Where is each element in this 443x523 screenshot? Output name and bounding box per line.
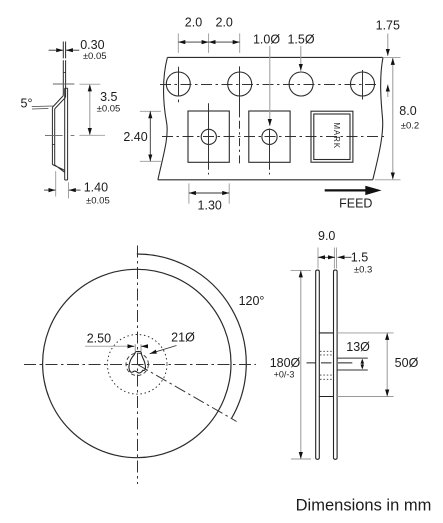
svg-text:0.30: 0.30: [80, 38, 104, 52]
FEED arrow: [325, 186, 382, 211]
svg-text:1.30: 1.30: [198, 198, 222, 212]
pocket 1 vertical center line: [208, 103, 210, 174]
svg-text:+0/-3: +0/-3: [274, 369, 295, 379]
sprocket hole 1: [166, 72, 190, 96]
svg-text:120°: 120°: [239, 294, 265, 308]
label 21 dia with leader: [150, 331, 195, 354]
svg-text:±0.3: ±0.3: [354, 264, 372, 275]
pocket 1 hole 1.0 dia: [201, 129, 216, 144]
MARK pocket inner: [314, 114, 350, 160]
dimension 2.40 (pocket height): [123, 111, 161, 161]
hub circle 21 dia (dotted): [107, 335, 167, 395]
svg-text:1.75: 1.75: [376, 18, 400, 32]
pocket rim right (double line with caps): [65, 88, 68, 180]
dimension 1.5 +-0.3 (flange thickness): [338, 251, 373, 276]
dimension 9.0 (reel width): [318, 229, 337, 268]
dimension 50 dia (hub): [337, 333, 418, 397]
pocket row center line (horizontal): [162, 136, 385, 138]
pocket 2 vertical center line: [269, 129, 271, 175]
left flange: [316, 270, 320, 459]
tape bottom edge: [158, 179, 373, 181]
pocket top kink (5 deg wall): [52, 96, 65, 109]
label 1.0 dia with leader to pocket hole: [253, 33, 280, 126]
reel outer circle: [43, 269, 231, 457]
pocket bottom kink: [52, 165, 64, 173]
dimension 1.75 (edge to hole center): [376, 18, 401, 97]
dimension 8.0 +-0.2 (tape width): [375, 58, 419, 180]
pocket 2 hole 1.0 dia: [262, 129, 277, 144]
tape left broken edge: [158, 57, 168, 179]
svg-text:1.0Ø: 1.0Ø: [253, 33, 280, 47]
svg-text:50Ø: 50Ø: [395, 356, 419, 370]
pocket 2: [249, 111, 290, 162]
MARK pocket outer: [311, 111, 353, 162]
pocket bottom wall (double line): [52, 107, 54, 164]
120 degree arc: [137, 254, 246, 418]
svg-text:3.5: 3.5: [100, 90, 117, 104]
tape top edge: [167, 56, 383, 58]
svg-text:2.0: 2.0: [216, 15, 233, 29]
dimension 0.30 +-0.05 (tape thickness): [49, 38, 107, 62]
svg-text:±0.05: ±0.05: [86, 196, 110, 207]
dimension 13 dia (bore): [337, 340, 370, 370]
svg-text:8.0: 8.0: [399, 104, 416, 118]
axis center line: [307, 362, 353, 364]
sprocket hole 3: [289, 72, 313, 96]
svg-text:1.5: 1.5: [351, 251, 368, 265]
dimension 1.30 (pocket width): [189, 183, 229, 212]
svg-text:5°: 5°: [21, 96, 33, 110]
dimension 180 dia +0/-3 (flange dia): [270, 270, 311, 459]
svg-text:Dimensions in mm: Dimensions in mm: [296, 497, 432, 515]
svg-text:2.0: 2.0: [185, 15, 202, 29]
svg-text:MARK: MARK: [332, 123, 341, 150]
svg-text:9.0: 9.0: [318, 229, 335, 243]
dimension 2.50 (key width): [85, 332, 147, 352]
svg-text:±0.05: ±0.05: [97, 104, 121, 115]
dimension 1.40 +-0.05 (pocket depth): [44, 171, 110, 207]
svg-text:FEED: FEED: [339, 197, 372, 211]
hub inner circle (dashed): [126, 353, 148, 375]
svg-text:180Ø: 180Ø: [270, 356, 301, 370]
svg-text:2.50: 2.50: [87, 332, 111, 346]
tape right broken edge: [373, 57, 383, 179]
label 5 degrees with leaders: [21, 96, 54, 110]
svg-text:1.40: 1.40: [84, 181, 108, 195]
radial center line at -30 deg: [138, 365, 237, 422]
hub outline: [319, 333, 333, 397]
pocket joint tick: [52, 144, 54, 146]
hub bore hidden lines (dotted): [320, 351, 333, 379]
reel vertical center line: [137, 246, 139, 485]
svg-text:2.40: 2.40: [123, 130, 147, 144]
sprocket hole center line (horizontal): [160, 84, 376, 86]
svg-text:13Ø: 13Ø: [346, 340, 370, 354]
dimension 2.0 2.0 (hole to pocket pitch): [178, 15, 239, 53]
label 1.5 dia with leader to sprocket hole: [287, 33, 314, 71]
hub key hole shape: [129, 351, 146, 373]
svg-text:1.5Ø: 1.5Ø: [287, 33, 314, 47]
strip joint tick: [63, 72, 65, 74]
right flange: [334, 270, 338, 459]
dimension 3.5 +-0.05 (pocket span): [45, 84, 120, 135]
tape strip top (double line): [63, 42, 65, 98]
sprocket hole vertical center lines: [179, 66, 363, 165]
reel horizontal center line: [24, 364, 256, 366]
svg-text:21Ø: 21Ø: [171, 331, 195, 345]
sprocket hole 2: [228, 72, 252, 96]
svg-text:±0.05: ±0.05: [83, 51, 107, 62]
sprocket hole 4: [351, 72, 375, 96]
svg-text:±0.2: ±0.2: [401, 120, 419, 131]
pocket 1: [188, 111, 229, 162]
